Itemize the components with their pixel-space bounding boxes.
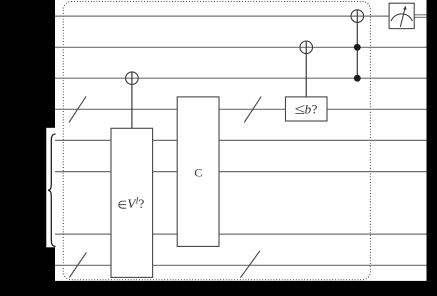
cnot target on q3 [126, 72, 139, 85]
gate box membership test [111, 128, 153, 277]
bus slash on q4 right [244, 97, 261, 123]
svg-text:b?: b? [305, 102, 318, 117]
bus slash on q8 left [69, 252, 86, 277]
wire q5 [55, 139, 427, 141]
meter needle arrowhead [403, 6, 406, 10]
register brace [48, 134, 56, 247]
dotted boundary box [63, 2, 370, 280]
background bump behind brace [46, 128, 56, 248]
wire q3 [55, 77, 427, 79]
wire q8 [55, 264, 427, 266]
vertical link target2 to b box [305, 41, 307, 97]
wire q6 [55, 171, 427, 173]
measurement meter box [389, 3, 414, 28]
bus slash on q4 left [69, 97, 86, 123]
bus slash on q8 right [240, 251, 259, 278]
gate box C [177, 97, 219, 247]
vertical link target1 to V box [131, 72, 133, 128]
vertical link target3 to controls [356, 10, 358, 78]
wire q4 [55, 108, 427, 110]
gate box threshold test [286, 97, 328, 121]
meter needle [400, 8, 405, 27]
control dot on q3 [354, 75, 361, 82]
svg-text:C: C [194, 165, 202, 179]
cnot target on q1 [351, 10, 364, 23]
control dot on q2 [354, 44, 361, 51]
wire q1 [55, 15, 389, 17]
wire q2 [55, 46, 427, 48]
cnot target on q2 [300, 41, 313, 54]
wire q7 [55, 233, 427, 235]
classical double wire [414, 15, 426, 17]
meter arc [391, 14, 412, 21]
